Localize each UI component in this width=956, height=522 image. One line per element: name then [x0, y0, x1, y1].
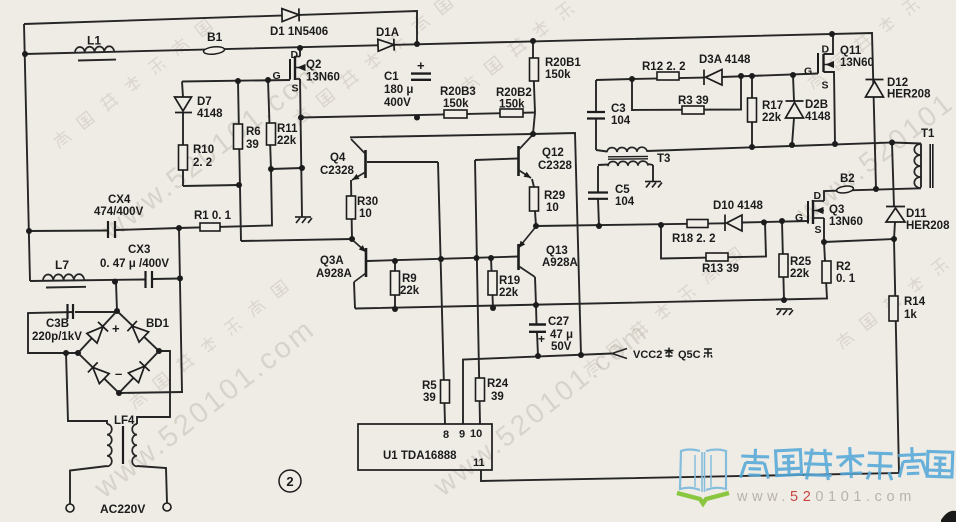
- wire D11 string from T1 top wire: [892, 143, 894, 208]
- resistor R17 22k: [748, 98, 757, 122]
- resistor R20B2 150k: [500, 109, 523, 117]
- wire R30 string: [351, 180, 352, 239]
- resistor R20B1 150k: [530, 58, 539, 81]
- svg-text:R11: R11: [277, 123, 298, 135]
- svg-text:+: +: [112, 321, 120, 336]
- wire gate bus Q13-emitter to Q3 gate with R18 D10: [536, 223, 725, 226]
- node VCC2 arrow: [612, 349, 627, 354]
- resistor R1 0.1: [200, 223, 220, 231]
- svg-text:39: 39: [246, 139, 259, 151]
- svg-text:LF4: LF4: [114, 415, 135, 427]
- capacitor C3 104: [587, 111, 605, 113]
- wire Q11 drain: [824, 35, 834, 55]
- svg-text:D1 1N5406: D1 1N5406: [270, 26, 328, 38]
- resistor R12 2.2: [657, 72, 679, 80]
- svg-text:Q3A: Q3A: [320, 255, 344, 267]
- wire Q12 base to R24 and U1 pin 10: [475, 159, 518, 161]
- svg-text:Q5C: Q5C: [678, 349, 701, 361]
- svg-text:R6: R6: [246, 126, 261, 138]
- wire T3 to T1 top run: [647, 143, 892, 152]
- wire CX3 right to vertical: [153, 278, 180, 281]
- resistor R6 39: [234, 124, 243, 149]
- wire Q3A collector drop: [354, 282, 355, 309]
- svg-text:–: –: [115, 366, 122, 381]
- wire Q13 collector drop to C27: [535, 277, 537, 324]
- capacitor CX4 474/400V: [107, 221, 109, 238]
- svg-text:R24: R24: [487, 378, 509, 390]
- wire Q4 base to R5 and U1 pin 8: [367, 161, 438, 163]
- svg-text:B1: B1: [207, 30, 223, 44]
- resistor R19 22k: [488, 271, 497, 295]
- svg-text:D: D: [291, 49, 299, 61]
- svg-text:+: +: [417, 58, 425, 73]
- wire R29 string: [532, 179, 534, 187]
- wire D7 to R10 and bottom: [182, 113, 184, 187]
- svg-text:AC220V: AC220V: [100, 502, 145, 516]
- wire CX4 right to R1 and corner up to R11: [116, 169, 272, 230]
- svg-text:C3B: C3B: [46, 318, 69, 330]
- wire S-node rail C1 bottom through R20B3 R20B2: [301, 113, 535, 118]
- wire R20B1 branch up: [533, 58, 535, 113]
- wire C3 top to R12 node: [596, 79, 632, 80]
- node bridge diamond: [78, 311, 159, 393]
- svg-text:39: 39: [423, 392, 436, 404]
- svg-text:400V: 400V: [384, 97, 411, 109]
- svg-text:474/400V: 474/400V: [94, 206, 144, 218]
- svg-text:R17: R17: [762, 100, 783, 112]
- diode D2B 4148: [786, 101, 804, 118]
- svg-text:C2328: C2328: [320, 165, 354, 177]
- wire C3B loop: [28, 312, 78, 353]
- svg-text:50V: 50V: [551, 341, 572, 353]
- wire Q3A Q13 base bus with R9 R19: [367, 257, 518, 262]
- wire C5 string: [597, 166, 599, 192]
- svg-text:1k: 1k: [904, 309, 917, 321]
- wire R17 branch: [751, 76, 753, 147]
- wire R25 branch: [782, 221, 784, 300]
- wire R19 branch: [491, 258, 493, 308]
- resistor R9 22k: [391, 271, 400, 295]
- wire R3 loop: [632, 76, 741, 110]
- svg-text:10: 10: [359, 208, 372, 220]
- svg-text:L7: L7: [55, 258, 69, 272]
- wire LF4 right bottom to AC terminal: [137, 466, 167, 503]
- transformer LF4: [107, 424, 112, 466]
- transistor Q12 C2328: [517, 146, 520, 176]
- capacitor C5 104: [588, 191, 608, 193]
- svg-text:R2: R2: [836, 261, 851, 273]
- svg-text:D: D: [814, 190, 822, 202]
- ground under R25: [776, 309, 793, 315]
- wire bridge minus to sense vertical: [119, 392, 183, 393]
- wire main HV rail with B1 D1A to Q11 drain and D12: [25, 33, 876, 189]
- wire R6 bottom to R30 bottom node: [241, 239, 352, 241]
- svg-text:D1A: D1A: [376, 27, 399, 39]
- wire T3 core links: [596, 150, 607, 152]
- diode D10 4148: [725, 215, 742, 232]
- wire D7 R6 R11 gate wire of Q2: [182, 80, 290, 82]
- svg-text:9: 9: [459, 429, 465, 441]
- diode D12 HER208: [866, 80, 884, 98]
- svg-text:D12: D12: [887, 77, 908, 89]
- svg-text:A928A: A928A: [316, 268, 352, 280]
- svg-text:T3: T3: [657, 153, 670, 165]
- wire C27 bottom: [537, 333, 538, 357]
- diode D3A 4148: [704, 70, 722, 86]
- svg-text:G: G: [273, 70, 281, 82]
- svg-text:Q12: Q12: [542, 147, 564, 159]
- svg-text:R3 39: R3 39: [678, 95, 709, 107]
- svg-text:D10 4148: D10 4148: [713, 200, 763, 212]
- svg-text:R19: R19: [499, 275, 520, 287]
- svg-text:0. 1: 0. 1: [836, 273, 856, 285]
- svg-text:13N60: 13N60: [306, 72, 340, 84]
- capacitor C27 47u 50V: [529, 323, 546, 325]
- svg-text:R20B1: R20B1: [545, 57, 581, 69]
- ground under Q2 source: [295, 217, 312, 223]
- capacitor CX3 0.47u/400V: [144, 271, 146, 288]
- svg-text:11: 11: [473, 457, 485, 469]
- wire bridge left to LF4: [66, 353, 107, 424]
- wire Q2 drain stub: [299, 48, 301, 57]
- svg-text:+: +: [538, 332, 545, 346]
- wire left vertical rail: [24, 24, 30, 281]
- svg-text:R5: R5: [422, 380, 437, 392]
- svg-text:4148: 4148: [805, 111, 831, 123]
- svg-text:13N60: 13N60: [829, 216, 863, 228]
- watermark logo blue text: [741, 446, 953, 480]
- svg-text:104: 104: [611, 115, 631, 127]
- svg-text:Q13: Q13: [546, 245, 568, 257]
- bridge rectifier BD1: [87, 322, 108, 343]
- transistor Q4 C2328: [364, 150, 367, 178]
- svg-text:S: S: [815, 224, 822, 236]
- capacitor C3B 220p/1kV: [66, 304, 68, 319]
- mosfet Q11 13N60: [817, 53, 819, 74]
- watermark logo book icon: [680, 450, 726, 493]
- resistor R20B3 150k: [444, 110, 467, 118]
- svg-text:C2328: C2328: [538, 160, 572, 172]
- wire Q11 source: [824, 72, 836, 144]
- svg-text:R20B2: R20B2: [496, 87, 532, 99]
- svg-text:R1 0. 1: R1 0. 1: [194, 210, 232, 222]
- svg-text:CX3: CX3: [128, 244, 150, 256]
- resistor R10 2.2: [179, 145, 188, 170]
- svg-text:2. 2: 2. 2: [193, 157, 212, 169]
- svg-text:150k: 150k: [545, 69, 571, 81]
- wire bridge plus to L7 line: [116, 282, 117, 311]
- wire R11 bottom to ground line: [271, 168, 302, 169]
- node junction dots: [22, 51, 28, 57]
- svg-text:G: G: [795, 212, 803, 224]
- svg-text:22k: 22k: [499, 287, 519, 299]
- mosfet Q2 13N60: [289, 59, 291, 80]
- node AC220V terminals: [66, 504, 74, 512]
- resistor R29 10: [530, 187, 539, 211]
- svg-text:R12 2. 2: R12 2. 2: [642, 61, 685, 73]
- inductor L1: [75, 46, 114, 53]
- wire L7 CX3 line: [30, 280, 145, 282]
- svg-text:10: 10: [546, 202, 559, 214]
- svg-text:S: S: [822, 80, 829, 92]
- svg-text:Q2: Q2: [306, 59, 321, 71]
- wire bridge right to LF4: [137, 351, 170, 424]
- svg-text:R10: R10: [193, 144, 214, 156]
- svg-text:D11: D11: [906, 208, 927, 220]
- wire vertical R1-node to bridge minus: [179, 228, 182, 392]
- svg-text:180 μ: 180 μ: [384, 84, 413, 96]
- svg-text:S: S: [292, 83, 299, 95]
- svg-text:C5: C5: [615, 184, 630, 196]
- wire R13 bypass loop: [661, 223, 766, 259]
- resistor R24 39: [476, 378, 485, 401]
- resistor R5 39: [441, 380, 450, 403]
- resistor R25 22k: [779, 254, 788, 277]
- svg-text:39: 39: [491, 391, 504, 403]
- svg-text:2: 2: [286, 474, 293, 489]
- svg-text:8: 8: [443, 429, 449, 441]
- svg-text:D3A 4148: D3A 4148: [699, 54, 751, 66]
- wire C3 string: [595, 80, 597, 112]
- svg-text:0. 47 μ /400V: 0. 47 μ /400V: [100, 258, 169, 270]
- svg-text:VCC2: VCC2: [633, 349, 662, 361]
- resistor R3 39: [682, 106, 704, 114]
- resistor R11 22k: [267, 123, 276, 145]
- resistor R2 0.1: [822, 261, 831, 283]
- wire CX4 left segment: [29, 230, 107, 233]
- svg-text:L1: L1: [87, 34, 101, 48]
- transistor Q13 A928A: [517, 244, 520, 270]
- wire Q3 source down: [823, 218, 825, 242]
- svg-text:D: D: [822, 44, 830, 56]
- diode D7 4148: [175, 97, 193, 113]
- svg-text:R30: R30: [357, 196, 378, 208]
- svg-text:Q11: Q11: [840, 45, 862, 57]
- wire D7 anode drop: [182, 82, 183, 98]
- svg-text:U1 TDA16888: U1 TDA16888: [383, 450, 457, 462]
- svg-text:HER208: HER208: [906, 220, 950, 232]
- svg-text:C27: C27: [548, 316, 569, 328]
- svg-text:R29: R29: [544, 190, 565, 202]
- resistor R18 2.2: [687, 220, 708, 228]
- svg-text:R9: R9: [402, 273, 417, 285]
- svg-text:22k: 22k: [400, 285, 420, 297]
- svg-text:Q3: Q3: [829, 204, 844, 216]
- transformer T3: [607, 147, 647, 152]
- wire C3B right to bridge top: [75, 311, 117, 313]
- svg-text:47 μ: 47 μ: [550, 329, 573, 341]
- wire R20B chain node down to Q12 collector wire: [533, 113, 535, 135]
- fuse B2: [836, 185, 854, 194]
- wire T1 bottom to B2: [824, 188, 921, 201]
- svg-text:BD1: BD1: [146, 318, 170, 330]
- svg-text:R18 2. 2: R18 2. 2: [672, 233, 715, 245]
- transformer T1: [914, 144, 920, 188]
- svg-text:150k: 150k: [499, 99, 525, 111]
- svg-text:R20B3: R20B3: [440, 86, 476, 98]
- resistor R13 39: [706, 253, 728, 261]
- wire U1 pin 11 to R14 bottom: [481, 239, 899, 481]
- wire R12 D3A run: [632, 78, 704, 79]
- svg-text:D7: D7: [197, 96, 212, 108]
- wire Q3 source to D11 R14 node: [824, 239, 894, 242]
- wire Q2 source to ground vertical: [300, 79, 302, 217]
- svg-text:150k: 150k: [443, 98, 469, 110]
- svg-text:R14: R14: [904, 296, 926, 308]
- diode D1 1N5406: [282, 8, 299, 21]
- wire D3A to Q11 gate: [722, 74, 818, 78]
- wire top rail from left corner through D1 to C1 node: [24, 11, 417, 44]
- wire R9 branch: [394, 261, 396, 309]
- wire R20B1 top to HV rail: [532, 41, 534, 58]
- svg-text:Q4: Q4: [330, 152, 346, 164]
- svg-text:220p/1kV: 220p/1kV: [32, 331, 82, 343]
- wire R10 bottom to R6 line: [183, 185, 239, 186]
- svg-text:B2: B2: [840, 173, 855, 185]
- wire R11 vertical: [268, 80, 271, 169]
- resistor R14 1k: [889, 296, 898, 321]
- inductor L7: [43, 274, 84, 281]
- node page marker 2: [279, 470, 301, 492]
- wire D2B branch: [793, 75, 794, 102]
- wire collector bus Q4 to Q12 down to VCC2 line: [350, 133, 581, 355]
- svg-text:C1: C1: [384, 71, 399, 83]
- svg-text:CX4: CX4: [108, 194, 131, 206]
- fuse B1: [203, 46, 225, 55]
- svg-text:22k: 22k: [277, 135, 297, 147]
- corner blob: [941, 511, 956, 522]
- svg-text:13N60: 13N60: [840, 57, 874, 69]
- capacitor C1 180u 400V: [411, 72, 431, 74]
- svg-text:104: 104: [615, 196, 635, 208]
- diode D1A: [378, 39, 394, 52]
- wire emitter bottom bus to R25 R2: [355, 242, 827, 309]
- svg-text:G: G: [804, 66, 812, 78]
- svg-text:10: 10: [470, 428, 482, 440]
- svg-text:4148: 4148: [197, 108, 223, 120]
- svg-text:A928A: A928A: [542, 257, 578, 269]
- svg-text:R25: R25: [790, 256, 812, 268]
- ground T3: [645, 182, 662, 188]
- svg-text:D2B: D2B: [805, 99, 828, 111]
- wire R6 vertical down: [238, 81, 241, 241]
- diode D11 HER208: [886, 207, 905, 223]
- transistor Q3A A928A: [365, 248, 368, 277]
- mosfet Q3 13N60: [807, 201, 809, 224]
- svg-text:www.520101.com: www.520101.com: [736, 489, 916, 505]
- svg-text:R13 39: R13 39: [702, 263, 739, 275]
- svg-text:HER208: HER208: [887, 89, 931, 101]
- svg-text:22k: 22k: [790, 268, 810, 280]
- wire LF4 left bottom to AC terminal: [70, 466, 107, 504]
- wire U1 pin 9 up to VCC2 line: [463, 354, 612, 425]
- wire T1 winding right side: [920, 144, 922, 188]
- svg-text:22k: 22k: [762, 112, 782, 124]
- IC U1 TDA16888: [358, 424, 492, 470]
- svg-text:T1: T1: [921, 128, 935, 140]
- svg-text:C3: C3: [611, 103, 626, 115]
- resistor R30 10: [347, 196, 356, 219]
